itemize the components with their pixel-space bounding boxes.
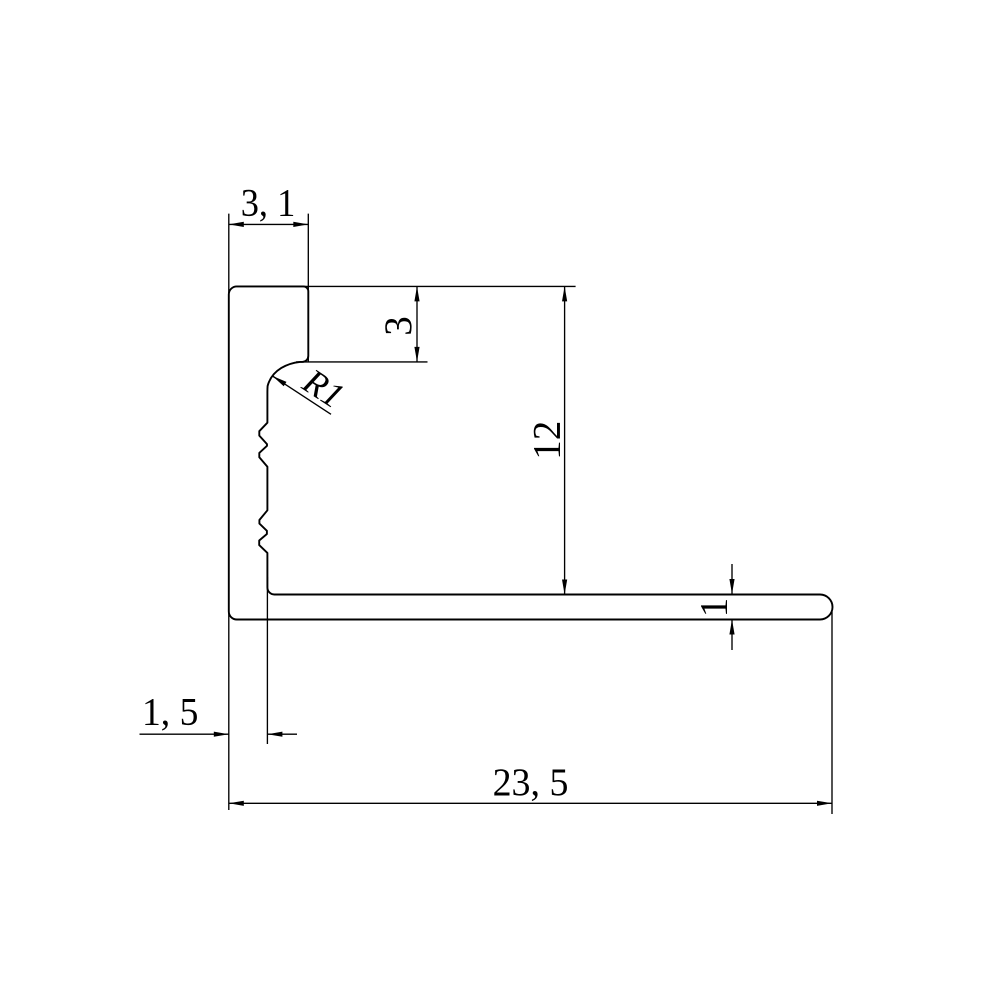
dimension 1: upper leader xyxy=(731,564,733,594)
arrowhead 12 bottom xyxy=(562,580,567,595)
arrowhead 1,5 right (points left) xyxy=(267,732,282,737)
extension line x=308.3 (right side of 3,1) xyxy=(307,214,309,362)
extension line y=361.9 (notch bottom, for dim 3) xyxy=(296,361,428,363)
dimension line 23,5 xyxy=(229,802,832,804)
arrowhead 1 lower (points up) xyxy=(729,620,734,635)
dimension line 3,1 xyxy=(229,223,308,225)
arrowhead 3,1 left xyxy=(229,222,244,227)
dimension line 12 xyxy=(564,286,566,594)
arrowhead 23,5 right xyxy=(817,801,832,806)
svg-text:1: 1 xyxy=(693,598,736,618)
dimension 1: lower leader xyxy=(731,620,733,651)
arrowhead 12 top xyxy=(562,286,567,301)
arrowhead 1,5 left (points right) xyxy=(214,732,229,737)
arrowhead 23,5 left xyxy=(229,801,244,806)
extension line y=286.4 (top edge, for dims 3 and 12) xyxy=(237,285,576,287)
extension line x=832 (bar right end, for dim 23,5) xyxy=(831,612,833,815)
dimension 1,5: right leader xyxy=(267,733,297,735)
svg-text:23, 5: 23, 5 xyxy=(493,761,569,804)
svg-text:12: 12 xyxy=(526,421,569,460)
extension line x=228.8 (left edge / 3,1 / 1,5 / 23,5) xyxy=(228,214,230,810)
svg-text:R1: R1 xyxy=(295,360,351,416)
arrowhead 3,1 right xyxy=(293,222,308,227)
arrowhead 3 bottom xyxy=(414,347,419,362)
dimension line 3 xyxy=(416,286,418,362)
leader line R1 xyxy=(273,376,332,414)
svg-text:3, 1: 3, 1 xyxy=(241,181,296,224)
svg-text:3: 3 xyxy=(377,316,420,336)
arrowhead 1 upper (points down) xyxy=(729,579,734,594)
extension line x=267.4 (inner wall, for dim 1,5) xyxy=(266,577,268,744)
arrowhead R1 (points up-left) xyxy=(273,376,287,386)
svg-text:1, 5: 1, 5 xyxy=(142,691,198,734)
dimension 1,5: left leader xyxy=(140,733,229,735)
profile outline xyxy=(229,286,833,619)
arrowhead 3 top xyxy=(414,286,419,301)
